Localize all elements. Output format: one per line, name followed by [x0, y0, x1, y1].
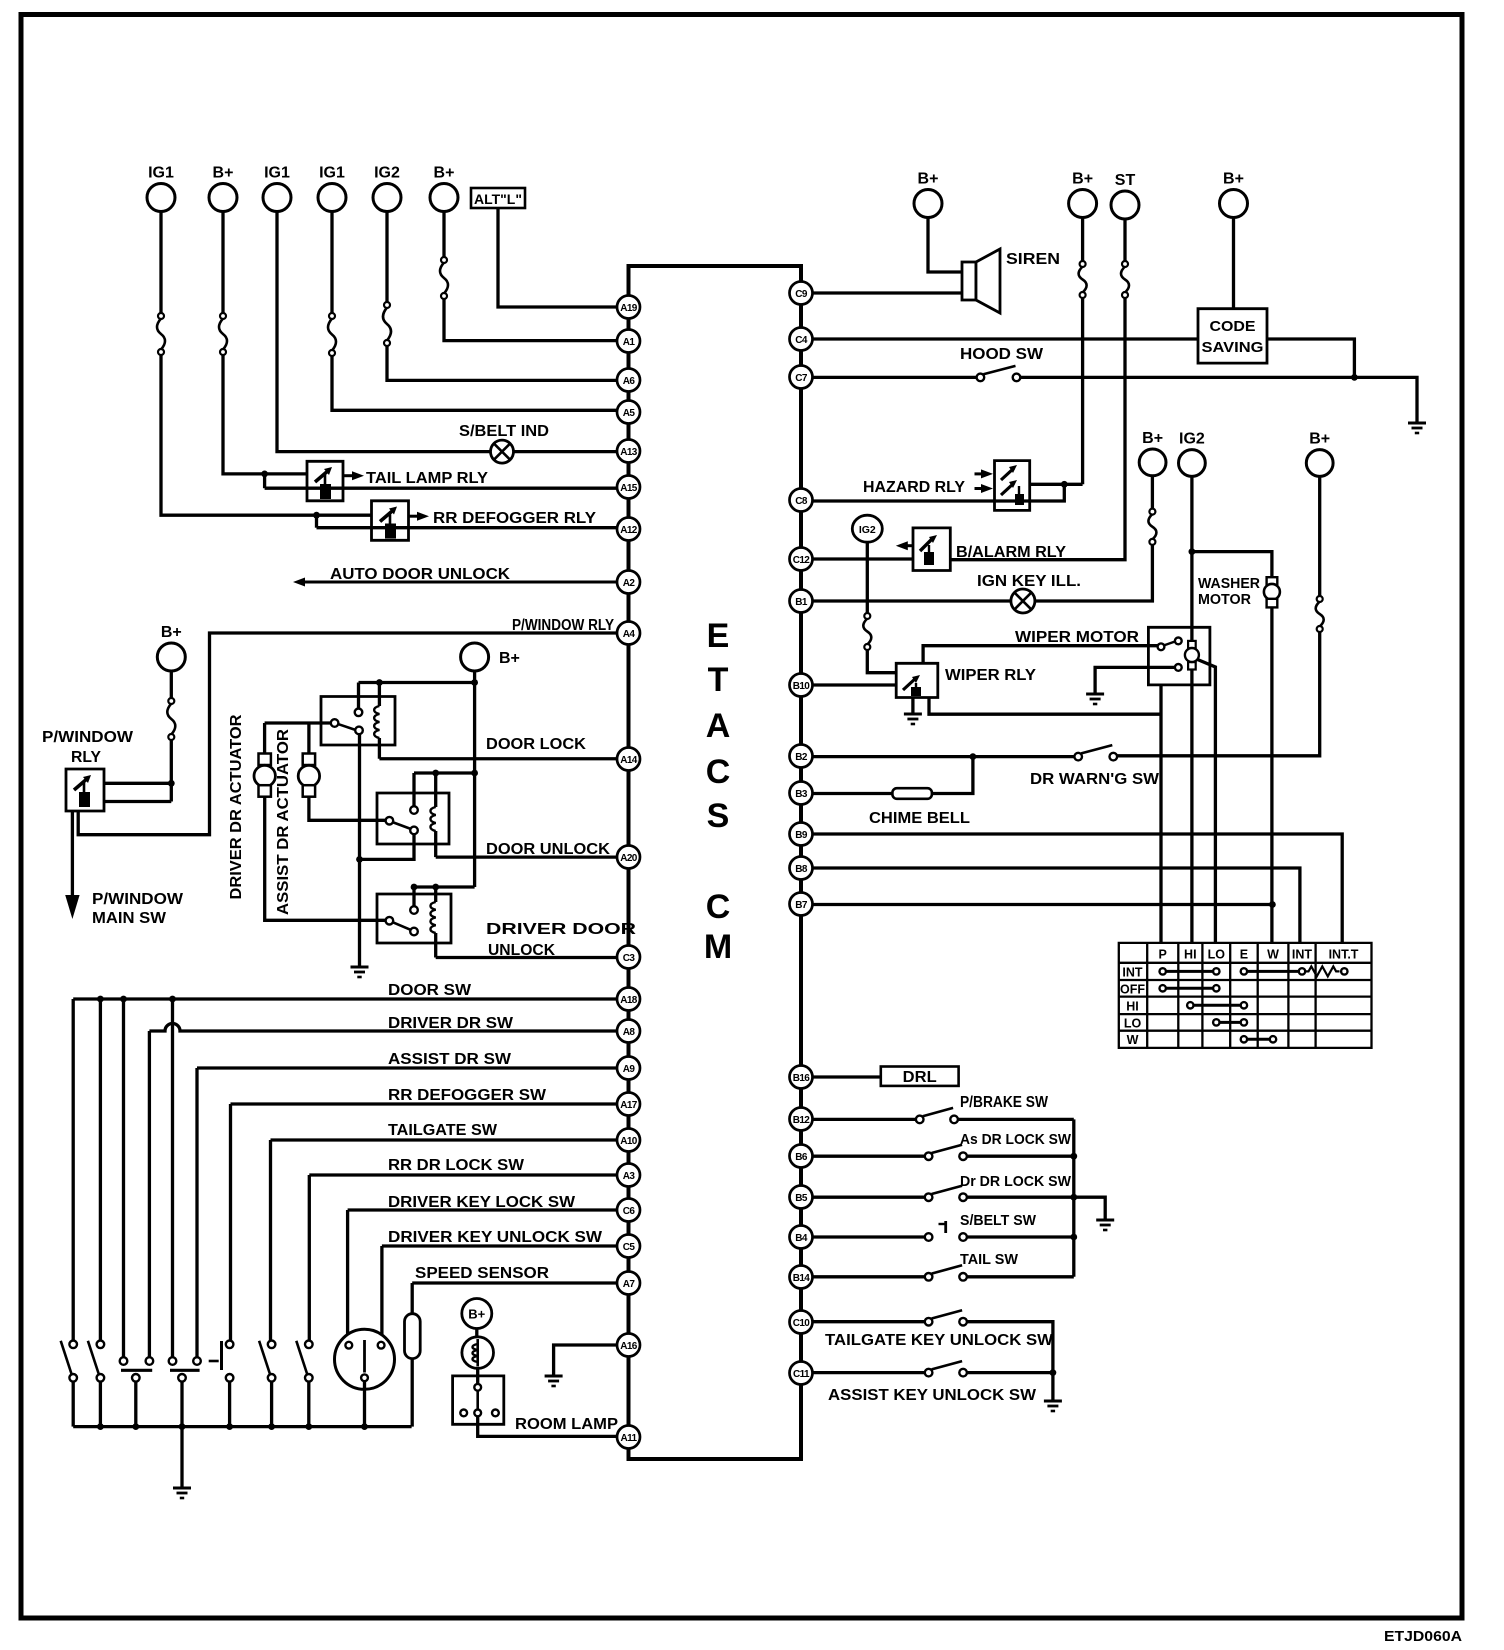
svg-text:IG1: IG1	[319, 165, 345, 182]
svg-text:RLY: RLY	[71, 749, 102, 766]
svg-text:B+: B+	[1142, 430, 1163, 447]
fuse on B+ col2	[219, 313, 227, 355]
wire IG2 col5 down to fuse	[385, 212, 388, 303]
fuse on B+ col6	[440, 257, 448, 299]
svg-text:C9: C9	[795, 289, 808, 300]
switch rr defogger (pushbutton)	[209, 1341, 234, 1382]
wire washer motor down to table W col	[1270, 607, 1273, 943]
svg-text:WASHER: WASHER	[1198, 576, 1261, 592]
pin B4	[790, 1226, 813, 1249]
svg-text:S: S	[707, 797, 730, 835]
table wiper switch grid	[1119, 943, 1372, 1048]
svg-text:A20: A20	[620, 853, 638, 864]
arrow into hazard relay upper	[975, 469, 994, 478]
fuse on IG2 node	[863, 613, 871, 650]
svg-text:A17: A17	[620, 1100, 638, 1111]
power source B+ (p/window)	[157, 624, 185, 671]
wire TAIL LAMP RLY output to pin A15	[265, 487, 617, 490]
pin C11	[790, 1362, 813, 1385]
svg-text:ASSIST DR ACTUATOR: ASSIST DR ACTUATOR	[275, 729, 292, 915]
switch tailgate sw	[259, 1341, 275, 1382]
svg-text:LO: LO	[1208, 948, 1226, 962]
pin A19	[617, 296, 640, 319]
svg-text:B12: B12	[793, 1115, 811, 1126]
svg-text:A3: A3	[623, 1171, 636, 1182]
fuse on p/window B+	[167, 698, 175, 740]
svg-text:RR DEFOGGER RLY: RR DEFOGGER RLY	[433, 510, 596, 527]
svg-text:HI: HI	[1184, 948, 1197, 962]
wire bus to ground	[180, 1427, 183, 1488]
wire/arrow AUTO DOOR UNLOCK from pin A2	[293, 578, 617, 587]
key cylinder bar	[363, 1340, 366, 1373]
wire relay2 upper contact stem	[412, 773, 415, 806]
junction dot collector-Dr	[1070, 1194, 1077, 1201]
wire B+ col6 down to fuse	[442, 212, 445, 258]
svg-text:SPEED SENSOR: SPEED SENSOR	[415, 1265, 549, 1282]
junction dot bus sw7	[305, 1423, 312, 1430]
switch TAILGATE KEY UNLOCK SW	[925, 1310, 967, 1325]
svg-text:IG2: IG2	[374, 165, 400, 182]
pin C12	[790, 548, 813, 571]
switch door sw 1	[61, 1341, 77, 1382]
junction dot chime tap	[970, 753, 977, 760]
wire relay1 coil top stem	[378, 683, 381, 707]
wire IG2 branch to washer motor	[1192, 552, 1272, 578]
svg-text:WIPER MOTOR: WIPER MOTOR	[1015, 629, 1139, 646]
pin A9	[617, 1057, 640, 1080]
pin A5	[617, 401, 640, 424]
pin A18	[617, 988, 640, 1011]
svg-text:C10: C10	[793, 1318, 811, 1329]
svg-text:A13: A13	[620, 447, 638, 458]
fuse on B+ (ign key)	[1148, 509, 1156, 545]
svg-text:ALT"L": ALT"L"	[474, 191, 522, 207]
wire wiper relay to motor contact	[923, 646, 1157, 664]
junction dot bus sw3	[132, 1423, 139, 1430]
contact wiper motor 2	[1175, 638, 1182, 645]
svg-text:S/BELT IND: S/BELT IND	[459, 423, 549, 440]
svg-text:DRL: DRL	[903, 1069, 937, 1086]
wire room lamp inner	[476, 1391, 479, 1410]
wire relay3 top feed from B+	[414, 885, 475, 888]
wire pin B6 to As DR LOCK SW	[813, 1155, 925, 1158]
wire pin B8 to table INT col	[813, 868, 1300, 943]
junction dot relay1 coil top	[376, 679, 383, 686]
svg-text:B8: B8	[795, 864, 808, 875]
contact wiper motor 3	[1175, 664, 1182, 671]
junction dot code-hood	[1351, 374, 1358, 381]
contact relay2 upper	[410, 806, 418, 814]
svg-text:ETJD060A: ETJD060A	[1384, 1628, 1462, 1645]
wire pin B4 to S/BELT SW	[813, 1235, 925, 1238]
wire B+ door-lock vertical	[473, 671, 476, 887]
box CODE SAVING	[1198, 309, 1267, 363]
pin A8	[617, 1020, 640, 1043]
svg-text:RR DR LOCK SW: RR DR LOCK SW	[388, 1157, 525, 1174]
svg-text:A12: A12	[620, 525, 638, 536]
junction dot relay2-ground	[356, 856, 363, 863]
room lamp switch box	[453, 1376, 504, 1424]
wire assist actuator bottom to relay2 pivot	[309, 797, 386, 821]
pin A3	[617, 1164, 640, 1187]
svg-text:B+: B+	[213, 165, 234, 182]
junction dot IG2-washer branch	[1189, 548, 1196, 555]
svg-text:B10: B10	[793, 681, 811, 692]
relay B/ALARM RLY glyph	[920, 535, 937, 565]
wire wiper relay ground stub	[911, 698, 914, 715]
pin B9	[790, 823, 813, 846]
wire pin B2 to DR WARN'G SW	[813, 755, 1075, 758]
contact relay3 pivot	[386, 917, 394, 925]
svg-text:T: T	[708, 661, 729, 699]
pin A20	[617, 846, 640, 869]
wire pin C8 to hazard corner	[813, 484, 1065, 501]
svg-text:B+: B+	[1072, 171, 1093, 188]
pin C7	[790, 366, 813, 389]
contact relay3 upper	[410, 906, 418, 914]
contact room lamp b3	[492, 1410, 499, 1417]
wire IGN KEY ILL lamp to B+ feed	[1035, 545, 1153, 601]
wire relay3 coil bottom to C3 line	[434, 933, 437, 958]
ground door-lock rail	[351, 967, 369, 977]
wire ALT L to pin A19	[498, 208, 617, 307]
wire DRIVER DOOR UNLOCK to pin C3	[436, 956, 617, 959]
wire relay top output to B+	[104, 782, 171, 785]
pin B1	[790, 590, 813, 613]
svg-text:CODE: CODE	[1210, 318, 1256, 335]
svg-text:TAIL SW: TAIL SW	[960, 1251, 1019, 1268]
svg-text:B+: B+	[1223, 171, 1244, 188]
junction dot B+ at relay2 feed	[471, 770, 478, 777]
svg-text:DOOR LOCK: DOOR LOCK	[486, 736, 586, 753]
pin B14	[790, 1266, 813, 1289]
svg-text:C: C	[706, 753, 731, 791]
svg-text:P/WINDOW: P/WINDOW	[92, 891, 183, 908]
switch Dr DR LOCK SW	[925, 1186, 967, 1201]
wire relay3 upper contact stem	[412, 887, 415, 906]
wire B+ to relay junction	[170, 740, 173, 802]
wire pin B16 to DRL	[813, 1075, 881, 1078]
power source B+ (hazard)	[1069, 171, 1097, 218]
wire relay bottom output to B+	[104, 800, 171, 803]
svg-text:A16: A16	[620, 1341, 638, 1352]
svg-text:OFF: OFF	[1120, 983, 1145, 997]
table LO row contacts	[1213, 1019, 1247, 1025]
junction dot collector-sbelt	[1070, 1234, 1077, 1241]
power source B+ (dr warn)	[1306, 431, 1333, 477]
contact relay1 lower	[355, 727, 363, 735]
pin A10	[617, 1129, 640, 1152]
wire IG2 col5 to pin A6	[387, 346, 617, 380]
wire motor contact3 to ground	[1095, 667, 1175, 694]
svg-text:DOOR UNLOCK: DOOR UNLOCK	[486, 841, 610, 858]
speed sensor pickup oval	[405, 1314, 421, 1359]
arrow out of B/ALARM RLY	[896, 541, 913, 550]
svg-text:A8: A8	[623, 1027, 636, 1038]
power source IG1 (col 3)	[263, 165, 291, 212]
relay P/WINDOW RLY glyph	[74, 775, 91, 807]
switch assist dr sw (twin contact)	[169, 1357, 201, 1381]
wire SPEED SENSOR to pin A7	[412, 1281, 617, 1284]
wire B+ hazard vertical	[1081, 298, 1084, 484]
arm relay1	[339, 724, 355, 729]
svg-text:B+: B+	[918, 171, 939, 188]
node ALT&quot;L&quot; box	[471, 188, 525, 208]
ETACS CM module box	[629, 266, 802, 1459]
wire relay1 upper contact stem	[357, 683, 360, 709]
svg-text:A14: A14	[620, 755, 638, 766]
wire DOOR UNLOCK to pin A20	[436, 855, 617, 858]
svg-text:P: P	[1159, 948, 1167, 962]
wire relay2 coil top stem	[434, 773, 437, 807]
svg-text:C11: C11	[793, 1369, 810, 1380]
wire ST down to fuse	[1123, 219, 1126, 261]
svg-text:ROOM LAMP: ROOM LAMP	[515, 1416, 618, 1433]
switch driver dr sw (twin contact)	[120, 1357, 154, 1381]
box WIPER MOTOR	[1148, 627, 1210, 685]
pin A7	[617, 1272, 640, 1295]
junction dot bus sw6	[268, 1423, 275, 1430]
svg-text:IG1: IG1	[264, 165, 290, 182]
wire branch to A15 line	[263, 474, 266, 488]
svg-text:A15: A15	[620, 483, 638, 494]
component CHIME BELL	[892, 788, 932, 799]
wire IG1 col3 to S/BELT IND	[277, 212, 491, 452]
wire DOOR LOCK to pin A14	[379, 757, 617, 760]
wire lamp to switch box	[476, 1368, 479, 1384]
wire IG2 wiper vertical to table HI col	[1190, 476, 1193, 943]
svg-text:ST: ST	[1115, 172, 1136, 189]
contact room lamp b2	[474, 1410, 481, 1417]
svg-text:DRIVER KEY UNLOCK SW: DRIVER KEY UNLOCK SW	[388, 1229, 603, 1246]
relay WIPER RLY box	[896, 663, 938, 697]
svg-text:ASSIST DR SW: ASSIST DR SW	[388, 1051, 512, 1068]
pin C9	[790, 282, 813, 305]
svg-text:A10: A10	[620, 1136, 638, 1147]
switch ASSIST KEY UNLOCK SW	[925, 1361, 967, 1376]
junction dot doorsw-sw4	[169, 996, 176, 1003]
contact key common	[361, 1374, 368, 1381]
svg-text:B9: B9	[795, 830, 808, 841]
table W row contacts	[1241, 1036, 1277, 1042]
wire pin C7 to hood switch	[813, 376, 977, 379]
wire drop switch7	[308, 1175, 311, 1341]
wire switch1 to bus	[72, 1382, 75, 1427]
wire motor box to table P col	[1159, 685, 1162, 943]
ground bottom-left bus	[173, 1488, 191, 1498]
wire ground bus	[73, 1425, 411, 1428]
power source B+ (col 2)	[209, 165, 237, 212]
wire switch7 to bus	[307, 1382, 310, 1427]
svg-text:P/WINDOW: P/WINDOW	[42, 729, 133, 746]
junction dot doorsw-sw2	[97, 996, 104, 1003]
svg-text:Dr DR LOCK SW: Dr DR LOCK SW	[960, 1173, 1072, 1190]
relay TAIL LAMP RLY box	[307, 461, 343, 501]
svg-text:C4: C4	[795, 335, 808, 346]
table column headers	[1159, 948, 1359, 962]
wire pin B10 to WIPER RLY	[813, 683, 897, 686]
svg-text:A1: A1	[623, 337, 636, 348]
wire actuator top feed driver	[263, 723, 266, 754]
junction dot RR defogger feed	[313, 512, 320, 519]
arm relay2	[393, 822, 410, 828]
wire pin A4 to P/WINDOW RLY	[78, 633, 617, 835]
junction dot doorsw-sw3	[120, 996, 127, 1003]
junction dot tail lamp feed	[261, 471, 268, 478]
svg-text:CHIME BELL: CHIME BELL	[869, 810, 970, 827]
wire wiper relay output to motor/P-column	[929, 698, 1161, 715]
wire drop switch6	[269, 1140, 272, 1341]
wire pin C10 to tailgate key switch	[813, 1320, 925, 1323]
coil relay1	[374, 706, 379, 738]
svg-text:SAVING: SAVING	[1202, 339, 1264, 356]
svg-text:SIREN: SIREN	[1006, 251, 1060, 268]
coil relay3	[430, 902, 435, 933]
motor symbol wiper (circle with squares)	[1185, 641, 1199, 670]
svg-text:B5: B5	[795, 1193, 808, 1204]
svg-text:A19: A19	[620, 303, 638, 314]
pin B16	[790, 1066, 813, 1089]
lamp S/BELT IND	[491, 440, 514, 463]
relay DRIVER DOOR UNLOCK relay3 box	[377, 894, 451, 943]
svg-text:C5: C5	[623, 1242, 636, 1253]
junction dot bus sw4	[179, 1423, 186, 1430]
fuse on IG2 col5	[383, 302, 391, 346]
speaker SIREN	[962, 249, 1000, 313]
pin C8	[790, 489, 813, 512]
svg-text:IGN KEY ILL.: IGN KEY ILL.	[977, 573, 1081, 590]
svg-text:B+: B+	[468, 1307, 485, 1322]
svg-text:MOTOR: MOTOR	[1198, 592, 1252, 608]
junction dot relay3 coil top	[432, 884, 439, 891]
wire RR DEFOGGER RLY output to pin A12	[317, 526, 618, 529]
junction dot hazard output	[1061, 481, 1068, 488]
svg-text:C6: C6	[623, 1206, 636, 1217]
arrow from TAIL LAMP RLY	[343, 471, 364, 480]
power source B+ (col 6)	[430, 165, 458, 212]
svg-text:E: E	[707, 617, 730, 655]
motor ASSIST DR ACTUATOR	[298, 754, 319, 797]
relay TAIL LAMP RLY glyph	[315, 467, 332, 499]
power source IG1 (col 1)	[147, 165, 175, 212]
junction dot B7 on washer line	[1269, 901, 1276, 908]
wire B+ to siren	[928, 218, 962, 273]
junction dot collector-As	[1070, 1153, 1077, 1160]
box DRL	[881, 1067, 959, 1087]
wire B+ col2 down to fuse	[221, 212, 224, 314]
pin C5	[617, 1235, 640, 1258]
switch HOOD SW	[977, 366, 1021, 381]
power source ST	[1111, 172, 1139, 219]
pin C10	[790, 1311, 813, 1334]
contact wiper motor 1	[1158, 643, 1165, 650]
svg-text:B6: B6	[795, 1152, 808, 1163]
svg-text:B16: B16	[793, 1073, 811, 1084]
wire pickup to bus	[411, 1359, 414, 1427]
wire RR DR LOCK SW to pin A3	[309, 1173, 617, 1176]
power source B+ (door lock)	[461, 643, 520, 671]
contact key unlock	[378, 1342, 385, 1349]
wire fuse to B+ circle (ign key)	[1151, 476, 1154, 509]
svg-text:HI: HI	[1126, 999, 1139, 1013]
motor WASHER MOTOR	[1264, 577, 1280, 607]
wire S/BELT SW to collector	[967, 1235, 1074, 1238]
wire drop switch1	[72, 999, 75, 1341]
svg-text:B+: B+	[434, 165, 455, 182]
wire IG1 col1 to RR DEFOGGER RLY feed	[161, 355, 372, 515]
contact relay2 lower	[410, 827, 418, 835]
wire relay2 coil bottom to DOOR UNLOCK line	[434, 831, 437, 857]
pin A11	[617, 1426, 640, 1449]
svg-text:A: A	[706, 707, 731, 745]
contact room lamp b1	[460, 1410, 467, 1417]
svg-text:IG1: IG1	[148, 165, 174, 182]
svg-text:UNLOCK: UNLOCK	[488, 942, 555, 959]
svg-text:C3: C3	[623, 953, 636, 964]
svg-text:P/BRAKE SW: P/BRAKE SW	[960, 1094, 1049, 1111]
wire IG2 node down to fuse	[866, 542, 869, 613]
junction dot relay2 coil top	[432, 770, 439, 777]
svg-text:B1: B1	[795, 597, 808, 608]
svg-text:A11: A11	[621, 1433, 638, 1444]
power source IG2 (col 5)	[373, 165, 401, 212]
wire DRIVER KEY LOCK SW to pin C6	[348, 1208, 617, 1211]
power source B+ (siren)	[914, 171, 942, 218]
wire switch5 to bus	[228, 1382, 231, 1427]
power source B+ (ign key)	[1139, 430, 1166, 476]
arrow from RR DEFOGGER RLY	[409, 512, 430, 521]
wire pin B12 to P/BRAKE SW	[813, 1118, 916, 1121]
ground wiper motor	[1086, 694, 1104, 704]
svg-text:C12: C12	[793, 555, 811, 566]
wire relay2 top feed	[414, 771, 475, 774]
pin B8	[790, 857, 813, 880]
power source IG2 (wiper)	[1179, 431, 1206, 477]
switch P/BRAKE SW	[916, 1108, 958, 1123]
relay RR DEFOGGER RLY box	[372, 501, 409, 541]
junction dot key unlock join	[1050, 1369, 1057, 1376]
wire IG2 node to WIPER RLY	[867, 650, 896, 673]
fuse on B+ dr-warn	[1316, 596, 1324, 632]
wire drop key-unlock to sensor	[380, 1246, 383, 1342]
svg-text:E: E	[1240, 948, 1248, 962]
wire B+ col6 to pin A1	[444, 299, 617, 341]
svg-text:A18: A18	[620, 995, 638, 1006]
table row labels	[1120, 966, 1145, 1048]
wire actuator top feed assist	[307, 723, 310, 754]
switch DR WARN'G SW	[1074, 745, 1117, 760]
relay WIPER RLY glyph	[903, 675, 921, 696]
switch TAIL SW	[925, 1265, 967, 1280]
svg-text:B7: B7	[795, 900, 808, 911]
relay DOOR UNLOCK relay2 box	[377, 793, 449, 844]
svg-text:A5: A5	[623, 408, 636, 419]
pin A12	[617, 518, 640, 541]
arrow into hazard relay lower	[975, 484, 994, 493]
wire RR DEFOGGER SW to pin A17	[231, 1102, 618, 1105]
wire pin A16 to ground	[554, 1345, 617, 1376]
svg-text:C7: C7	[795, 373, 808, 384]
wire drop speed sensor line to pickup	[411, 1283, 414, 1314]
svg-text:TAILGATE KEY UNLOCK SW: TAILGATE KEY UNLOCK SW	[825, 1332, 1054, 1349]
contact relay1 pivot	[331, 719, 339, 727]
wire Dr DR LOCK SW to ground	[967, 1197, 1105, 1220]
svg-text:AUTO DOOR UNLOCK: AUTO DOOR UNLOCK	[330, 566, 510, 583]
wire B+ to DR WARN'G SW	[1117, 632, 1320, 756]
wire driver actuator bottom to relay3 pivot	[265, 797, 386, 921]
wire chime bell to B2 line	[932, 757, 973, 794]
pin C4	[790, 328, 813, 351]
